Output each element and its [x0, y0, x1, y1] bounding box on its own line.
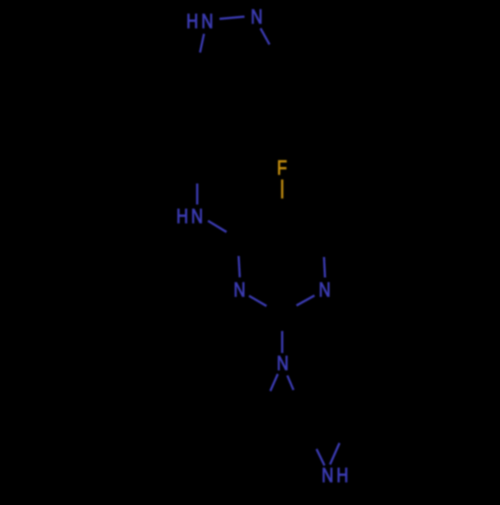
svg-text:H: H — [336, 463, 348, 486]
bond N-C1 azetidine half — [270, 374, 278, 391]
bond C-NH linker vertical half — [196, 184, 198, 205]
bond C2-N spiro half — [281, 331, 283, 353]
svg-text:F: F — [277, 156, 287, 179]
svg-text:N: N — [319, 278, 331, 301]
bond N2-C3 pyrazole half — [261, 28, 270, 44]
bond C4-N3 pyrimidine half — [239, 256, 240, 277]
svg-text:H: H — [176, 204, 188, 227]
svg-text:N: N — [251, 5, 263, 28]
bond N1-N2 pyrazole — [220, 17, 245, 19]
svg-text:H: H — [186, 9, 198, 32]
bond N1-C2 pyrimidine half — [297, 296, 315, 306]
svg-text:N: N — [191, 204, 203, 227]
bond N1-C7a pyrazole half — [200, 34, 204, 53]
bond C5-NH azetidine half — [317, 449, 325, 466]
bond C6-N1 pyrimidine half — [324, 257, 325, 278]
svg-text:N: N — [201, 9, 213, 32]
svg-text:N: N — [322, 463, 334, 486]
bond N3-C2 pyrimidine half — [249, 296, 267, 306]
bond F-C5 pyrimidine half — [281, 180, 283, 199]
bond C7-NH azetidine half — [330, 443, 340, 465]
svg-text:N: N — [234, 278, 246, 301]
svg-text:N: N — [277, 351, 289, 374]
bond NH-C4 pyrimidine half — [208, 221, 227, 232]
bond N-C3 azetidine half — [287, 376, 293, 391]
